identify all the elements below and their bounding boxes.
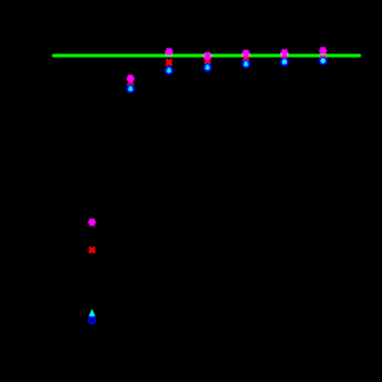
cluster 3 triangle [166, 66, 173, 73]
cluster 4 star [204, 52, 212, 59]
cluster 7 star [319, 47, 327, 54]
cluster 1 X [89, 247, 95, 253]
cluster 6 X [282, 56, 288, 62]
cluster 5 circle [243, 60, 250, 67]
cluster 3 circle [166, 67, 173, 74]
cluster 2 X [128, 79, 134, 85]
cluster 2 triangle [127, 84, 134, 91]
cluster 4 triangle [204, 63, 211, 70]
cluster 6 circle [281, 58, 288, 65]
cluster 6 triangle [281, 58, 288, 65]
cluster 7 triangle [320, 56, 327, 63]
cluster 1 star [88, 219, 96, 226]
cluster 4 X [205, 58, 211, 64]
cluster 3 X [166, 60, 172, 66]
cluster 2 circle [127, 85, 134, 92]
cluster 2 star [127, 75, 135, 82]
cluster 7 X [320, 55, 326, 61]
asymptote line (green) [52, 54, 361, 57]
cluster 4 circle [204, 64, 211, 71]
cluster 1 circle [89, 317, 95, 323]
cluster 7 circle [320, 57, 327, 64]
cluster 5 X [243, 55, 249, 61]
cluster 5 triangle [243, 60, 250, 67]
cluster 5 star [242, 50, 250, 57]
cluster 1 triangle [89, 309, 96, 316]
cluster 3 star [165, 48, 173, 55]
cluster 6 star [281, 49, 289, 56]
